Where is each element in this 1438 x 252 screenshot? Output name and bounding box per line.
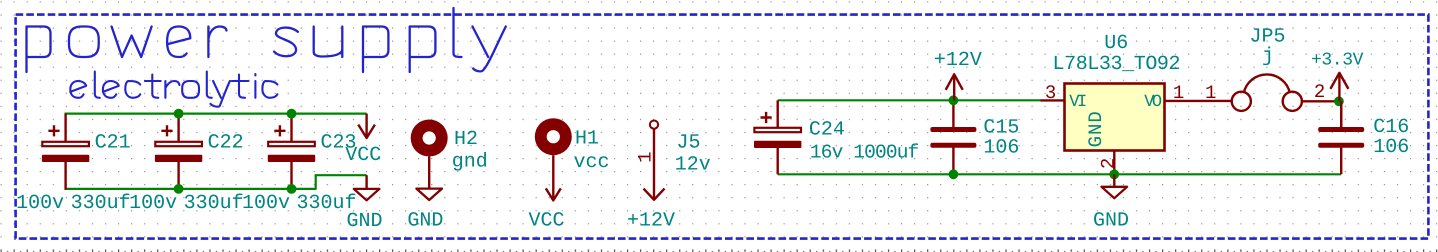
svg-text:VCC: VCC bbox=[345, 144, 381, 167]
wire bottom bus step horizontal bbox=[315, 174, 367, 176]
jumper JP5 right circle bbox=[1283, 92, 1302, 111]
svg-text:+3.3V: +3.3V bbox=[1311, 51, 1364, 71]
connector J5 pin circle bbox=[650, 121, 658, 129]
svg-text:2: 2 bbox=[1314, 81, 1325, 103]
junction top bus at C22 bbox=[174, 109, 184, 119]
svg-text:L78L33_TO92: L78L33_TO92 bbox=[1053, 53, 1181, 76]
svg-text:12v: 12v bbox=[675, 154, 711, 177]
pin 3 line of U6 bbox=[1041, 99, 1065, 101]
jumper JP5 left circle bbox=[1232, 92, 1251, 111]
wire top bus of cap bank bbox=[65, 112, 367, 114]
wire bottom bus step vertical bbox=[315, 175, 317, 190]
capacitor C16 bbox=[1340, 101, 1342, 127]
power symbol VCC arrow bbox=[365, 114, 367, 138]
regulator U6 body bbox=[1065, 84, 1165, 151]
junction bottom bus at C22 bbox=[174, 184, 184, 194]
svg-text:J5: J5 bbox=[677, 131, 701, 154]
svg-text:106: 106 bbox=[983, 137, 1019, 160]
bottom cropped tick row (decorative) bbox=[0, 249, 1438, 252]
svg-text:100v: 100v bbox=[242, 192, 290, 215]
pin 2 line of JP5 bbox=[1302, 100, 1339, 102]
lead +3.3V node to C16 bbox=[1340, 101, 1342, 127]
svg-text:VI: VI bbox=[1069, 93, 1086, 112]
lead H2 to gnd bbox=[428, 157, 430, 189]
svg-text:GND: GND bbox=[407, 210, 443, 233]
svg-text:GND: GND bbox=[1085, 110, 1107, 147]
svg-text:1: 1 bbox=[1173, 82, 1184, 104]
svg-text:1: 1 bbox=[635, 151, 657, 162]
junction node +3.3V bbox=[1334, 96, 1344, 106]
power symbol GND (U6) bbox=[1113, 174, 1115, 187]
capacitor C22 bbox=[177, 114, 179, 142]
capacitor C23 bbox=[290, 114, 292, 142]
wire bottom bus of cap bank bbox=[65, 188, 316, 190]
svg-text:VO: VO bbox=[1144, 93, 1162, 112]
power symbol +12V arrow bbox=[953, 74, 955, 100]
wire bottom rail C24 to C16 bbox=[778, 173, 1341, 175]
wire top rail C24 to U6 bbox=[778, 99, 1041, 101]
title text 'power supply' bbox=[27, 8, 506, 72]
svg-text:3: 3 bbox=[1045, 82, 1056, 104]
subtitle text 'electrolytic' bbox=[70, 72, 277, 107]
svg-text:gnd: gnd bbox=[452, 151, 488, 174]
svg-text:GND: GND bbox=[1093, 209, 1129, 232]
svg-text:C21: C21 bbox=[95, 131, 131, 154]
power symbol GND (cap bank) bbox=[365, 175, 367, 189]
svg-text:100v: 100v bbox=[129, 192, 177, 215]
junction bottom rail at C15 bbox=[949, 169, 959, 179]
jumper JP5 arc bbox=[1244, 74, 1290, 93]
svg-text:H1: H1 bbox=[575, 127, 599, 150]
mounting hole H2 pad bbox=[411, 120, 448, 157]
pin 2 line of U6 bbox=[1113, 151, 1115, 175]
svg-text:+12V: +12V bbox=[627, 209, 675, 232]
power symbol +12V arrow (J5) bbox=[653, 129, 655, 200]
junction bottom bus at C23 bbox=[287, 184, 297, 194]
mounting hole H1 pad bbox=[535, 118, 572, 155]
svg-text:330uf: 330uf bbox=[71, 192, 131, 215]
svg-text:100v: 100v bbox=[16, 192, 64, 215]
svg-text:16v 1000uf: 16v 1000uf bbox=[810, 141, 919, 163]
junction top rail at C15 bbox=[949, 95, 959, 105]
svg-text:106: 106 bbox=[1373, 136, 1409, 159]
svg-text:U6: U6 bbox=[1104, 32, 1128, 55]
svg-text:+12V: +12V bbox=[934, 49, 982, 72]
junction top bus at C23 bbox=[287, 109, 297, 119]
svg-text:vcc: vcc bbox=[574, 151, 610, 174]
capacitor C15 bbox=[952, 100, 954, 127]
svg-text:H2: H2 bbox=[454, 128, 478, 151]
capacitor C24 bbox=[777, 100, 779, 127]
svg-text:1: 1 bbox=[1205, 82, 1216, 104]
junction bottom rail at U6 pin 2 bbox=[1109, 169, 1119, 179]
capacitor C21 bbox=[64, 114, 66, 142]
power symbol VCC arrow (H1) bbox=[552, 155, 554, 200]
svg-text:330uf: 330uf bbox=[184, 192, 244, 215]
svg-text:VCC: VCC bbox=[529, 210, 565, 233]
svg-text:C24: C24 bbox=[809, 119, 845, 142]
power symbol GND (H2) bbox=[416, 189, 442, 200]
svg-text:2: 2 bbox=[1098, 158, 1120, 169]
svg-text:GND: GND bbox=[347, 210, 383, 233]
svg-text:C22: C22 bbox=[208, 131, 244, 154]
svg-text:j: j bbox=[1262, 45, 1274, 68]
pin 1 line of U6 and JP5 pin 1 bbox=[1165, 100, 1232, 102]
power symbol +3.3V arrow bbox=[1338, 73, 1340, 101]
